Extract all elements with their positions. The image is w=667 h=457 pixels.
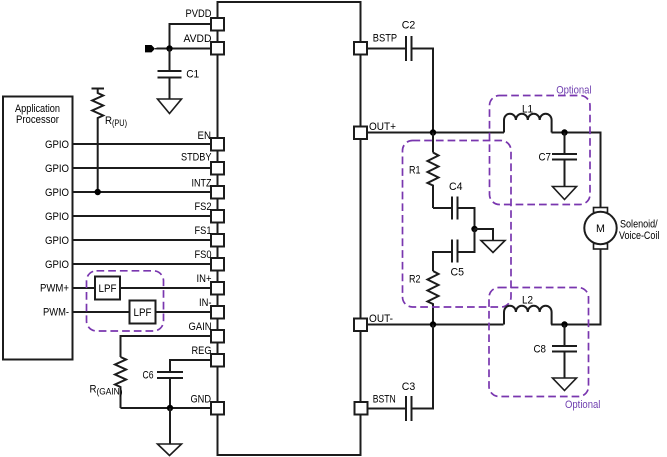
ground under C8 [553, 378, 577, 391]
wire GPIO to STDBY [73, 167, 212, 169]
svg-text:AVDD: AVDD [184, 33, 212, 45]
svg-text:GAIN: GAIN [189, 321, 212, 333]
pin REG [192, 345, 225, 367]
svg-text:(GAIN): (GAIN) [97, 386, 123, 396]
svg-text:REG: REG [192, 345, 212, 357]
pin GAIN [189, 321, 225, 343]
svg-text:C4: C4 [449, 181, 463, 193]
pin FS1 [195, 225, 225, 247]
pin OUT- [354, 313, 393, 331]
svg-text:GPIO: GPIO [45, 187, 69, 199]
ground under C1 [158, 99, 182, 114]
svg-text:BSTP: BSTP [373, 33, 397, 45]
wire C3 to OUT- node [412, 325, 434, 409]
svg-text:LPF: LPF [134, 307, 152, 319]
svg-text:L1: L1 [522, 104, 533, 116]
wire LPF to IN- [156, 311, 212, 313]
LPF block 1 [95, 277, 120, 300]
node GPIO labels [45, 139, 69, 271]
wire BSTP to C2 [367, 48, 406, 50]
node junction L2/C8 [561, 321, 567, 327]
node junction R(PU)/INTZ [95, 189, 101, 195]
svg-text:GPIO: GPIO [45, 235, 69, 247]
pin EN [198, 130, 225, 151]
svg-text:L2: L2 [522, 295, 533, 307]
pin STDBY [181, 152, 224, 175]
wire L2 to motor [551, 249, 600, 325]
svg-text:C5: C5 [451, 267, 465, 279]
LPF dashed optional box [87, 271, 164, 331]
svg-text:C7: C7 [539, 152, 552, 164]
svg-text:C3: C3 [402, 381, 416, 393]
wire BSTN to C3 [367, 408, 406, 410]
inductor L1 [504, 104, 552, 133]
svg-text:PVDD: PVDD [186, 8, 212, 20]
RC network dashed optional box [403, 141, 512, 308]
svg-text:Optional: Optional [556, 85, 591, 97]
svg-text:FS0: FS0 [195, 249, 212, 261]
resistor R(PU) [92, 89, 128, 193]
svg-text:R1: R1 [409, 165, 421, 177]
svg-text:GPIO: GPIO [45, 259, 69, 271]
svg-text:EN: EN [198, 130, 212, 142]
capacitor C6 [143, 360, 212, 408]
svg-text:IN-: IN- [199, 297, 212, 309]
svg-text:C1: C1 [186, 69, 199, 81]
LPF block 2 [130, 301, 156, 324]
svg-text:C2: C2 [402, 20, 416, 32]
node junction AVDD [166, 45, 172, 51]
ground mid tap [475, 229, 506, 253]
svg-text:OUT-: OUT- [369, 313, 393, 325]
svg-text:PWM-: PWM- [43, 307, 69, 319]
pin BSTP [354, 33, 397, 55]
wire PWM+ to LPF [73, 287, 96, 289]
capacitor C8 [534, 325, 578, 379]
svg-text:Solenoid/: Solenoid/ [620, 219, 658, 231]
motor M solenoid [584, 208, 616, 250]
svg-text:INTZ: INTZ [192, 178, 212, 190]
svg-text:GPIO: GPIO [45, 139, 69, 151]
pin GND [191, 394, 225, 415]
wire PVDD branch [170, 24, 212, 49]
svg-text:IN+: IN+ [197, 273, 212, 285]
wire GPIO to FS2 [73, 215, 212, 217]
pin IN- [199, 297, 224, 319]
wire GPIO to EN [73, 143, 212, 145]
svg-text:GND: GND [191, 394, 212, 406]
wire PWM- to LPF [73, 311, 130, 313]
svg-text:OUT+: OUT+ [369, 121, 396, 133]
wire C2 to OUT+ node [412, 49, 434, 133]
svg-text:C8: C8 [534, 344, 547, 356]
pin AVDD [184, 33, 225, 55]
svg-text:Voice-Coil: Voice-Coil [619, 230, 659, 242]
pin BSTN [355, 394, 396, 415]
resistor R2 [409, 271, 439, 325]
node junction GND [167, 405, 173, 411]
node junction L1/C7 [561, 129, 567, 135]
application processor box [3, 97, 73, 360]
capacitor C3 [402, 381, 416, 421]
svg-text:(PU): (PU) [112, 118, 127, 128]
pin PVDD [186, 8, 225, 31]
wire GPIO to FS1 [73, 239, 212, 241]
svg-text:C6: C6 [143, 370, 154, 382]
wire GAIN to R(GAIN) [121, 336, 212, 357]
wire LPF to IN+ [120, 287, 211, 289]
pin FS0 [195, 249, 225, 271]
wire AVDD branch [157, 48, 212, 50]
capacitor C5 [433, 229, 475, 279]
pin OUT+ [354, 121, 396, 139]
resistor R1 [409, 133, 439, 209]
svg-text:M: M [596, 223, 605, 235]
wire OUT- [367, 324, 504, 326]
node junction C4/C5 [471, 226, 477, 232]
svg-text:Processor: Processor [16, 114, 59, 126]
wire OUT+ [367, 132, 504, 134]
ground under GND [158, 444, 182, 456]
pin FS2 [195, 201, 225, 223]
wire GND to ground [169, 408, 171, 444]
pin INTZ [192, 178, 225, 199]
svg-text:FS2: FS2 [195, 201, 212, 213]
capacitor C2 [402, 20, 416, 62]
capacitor C7 [539, 133, 578, 187]
L1/C7 dashed optional box [490, 96, 591, 205]
svg-text:LPF: LPF [99, 283, 117, 295]
wire L1 to motor [552, 133, 601, 208]
node Solenoid/Voice-Coil label [619, 219, 659, 243]
svg-text:STDBY: STDBY [181, 152, 212, 164]
svg-text:FS1: FS1 [195, 225, 212, 237]
svg-text:GPIO: GPIO [45, 163, 69, 175]
pin IN+ [197, 273, 225, 295]
node AVDD input tag [145, 45, 155, 52]
svg-text:Optional: Optional [565, 399, 600, 411]
svg-text:R2: R2 [409, 274, 421, 286]
svg-text:PWM+: PWM+ [40, 283, 69, 295]
L2/C8 dashed optional box [489, 288, 589, 397]
op-amp U1 main IC body [218, 2, 361, 455]
capacitor C1 [158, 49, 200, 100]
wire R(GAIN) to GND [121, 407, 212, 409]
wire GPIO to INTZ [73, 191, 212, 193]
svg-text:GPIO: GPIO [45, 211, 69, 223]
wire GPIO to FS0 [73, 263, 212, 265]
inductor L2 [504, 295, 552, 325]
ground under C7 [553, 187, 577, 200]
node junction OUT- [430, 321, 436, 327]
resistor R(GAIN) [90, 357, 127, 408]
capacitor C4 [433, 181, 475, 229]
node junction OUT+ [430, 129, 436, 135]
svg-text:BSTN: BSTN [373, 394, 396, 406]
